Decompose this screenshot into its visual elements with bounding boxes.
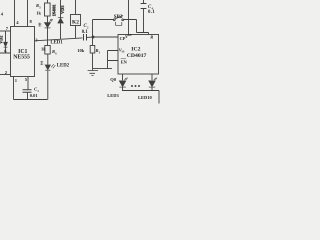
svg-text:LED3: LED3 bbox=[107, 93, 119, 98]
svg-text:NE555: NE555 bbox=[13, 54, 30, 60]
svg-text:0.01: 0.01 bbox=[30, 93, 39, 98]
svg-text:SB2: SB2 bbox=[114, 15, 123, 20]
svg-text:IC2: IC2 bbox=[131, 47, 140, 53]
svg-text:LED1: LED1 bbox=[50, 41, 63, 46]
svg-text:1k: 1k bbox=[36, 11, 41, 16]
svg-text:VD3: VD3 bbox=[60, 5, 65, 14]
svg-text:CD4017: CD4017 bbox=[127, 53, 147, 59]
svg-text:DD: DD bbox=[128, 34, 132, 37]
svg-text:10k: 10k bbox=[77, 48, 85, 53]
svg-text:LED2: LED2 bbox=[57, 64, 70, 69]
svg-text:K2: K2 bbox=[72, 19, 79, 25]
svg-text:EN: EN bbox=[121, 59, 128, 64]
svg-text:R: R bbox=[150, 35, 153, 40]
svg-text:VD2: VD2 bbox=[0, 36, 4, 44]
svg-text:0.1: 0.1 bbox=[82, 30, 89, 35]
svg-text:1N4001: 1N4001 bbox=[53, 4, 57, 16]
svg-text:0.1: 0.1 bbox=[148, 10, 155, 15]
svg-text:Q0: Q0 bbox=[110, 77, 117, 82]
svg-text:LED10: LED10 bbox=[138, 95, 153, 100]
svg-text:1k: 1k bbox=[41, 46, 46, 51]
